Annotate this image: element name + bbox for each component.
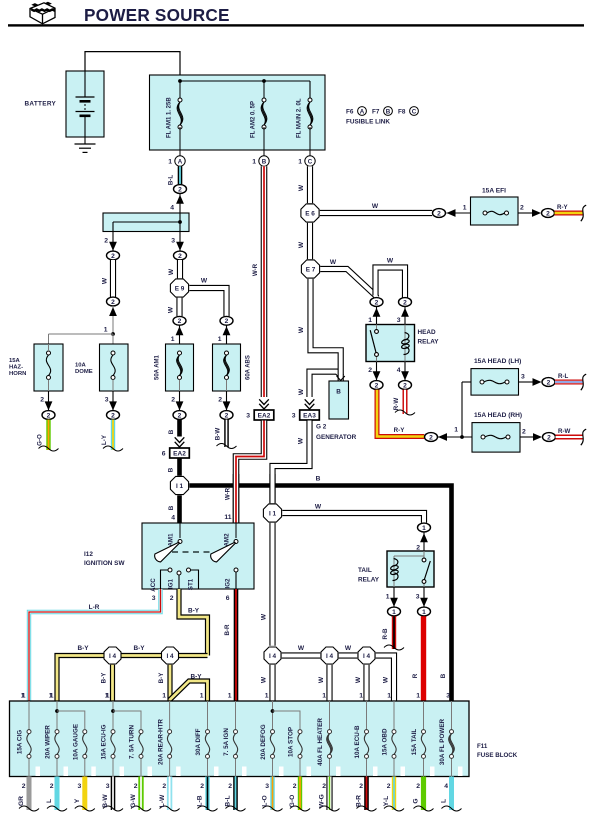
svg-text:7. 5A IGN: 7. 5A IGN <box>223 728 230 756</box>
svg-text:F11: F11 <box>477 743 488 750</box>
svg-text:B: B <box>168 429 175 434</box>
svg-text:2: 2 <box>225 412 229 419</box>
svg-text:2: 2 <box>547 379 551 386</box>
svg-text:W: W <box>298 326 305 333</box>
svg-text:2: 2 <box>522 429 526 436</box>
svg-text:W: W <box>168 268 175 275</box>
svg-text:2: 2 <box>47 412 51 419</box>
svg-text:15A HEAD (LH): 15A HEAD (LH) <box>474 358 521 365</box>
svg-text:B-R: B-R <box>356 795 363 807</box>
svg-text:B-W: B-W <box>102 794 109 808</box>
svg-text:15A HEAD (RH): 15A HEAD (RH) <box>474 412 522 419</box>
svg-text:2: 2 <box>546 210 550 217</box>
svg-text:HAZ-: HAZ- <box>9 365 23 371</box>
svg-text:W: W <box>201 278 208 285</box>
svg-text:2: 2 <box>134 783 138 790</box>
svg-text:B: B <box>386 108 391 115</box>
svg-text:1: 1 <box>454 427 458 434</box>
svg-text:2: 2 <box>368 367 372 374</box>
svg-text:B: B <box>168 467 175 472</box>
svg-text:2: 2 <box>437 210 441 217</box>
svg-text:POWER SOURCE: POWER SOURCE <box>84 5 230 25</box>
svg-text:I 4: I 4 <box>326 653 334 660</box>
svg-text:7. 5A TURN: 7. 5A TURN <box>129 725 136 760</box>
svg-text:3: 3 <box>171 238 175 245</box>
svg-text:FL AM2 0. 5P: FL AM2 0. 5P <box>251 101 257 138</box>
svg-text:L: L <box>46 799 53 803</box>
svg-text:1: 1 <box>387 693 391 700</box>
svg-text:R-Y: R-Y <box>557 204 569 211</box>
svg-text:1: 1 <box>168 159 172 166</box>
svg-text:60A ABS: 60A ABS <box>246 355 252 380</box>
svg-text:3: 3 <box>152 595 156 602</box>
svg-text:R-W: R-W <box>393 398 400 411</box>
svg-text:L: L <box>441 799 448 803</box>
svg-text:1: 1 <box>50 693 54 700</box>
svg-text:3: 3 <box>105 397 109 404</box>
svg-text:W: W <box>298 241 305 248</box>
svg-text:2: 2 <box>111 253 115 260</box>
svg-text:E 6: E 6 <box>305 210 315 217</box>
svg-text:4: 4 <box>170 205 174 212</box>
svg-text:L-O: L-O <box>262 795 269 807</box>
svg-text:L-Y: L-Y <box>101 434 108 445</box>
svg-text:EA3: EA3 <box>303 412 316 419</box>
svg-text:10A STOP: 10A STOP <box>288 727 295 757</box>
svg-text:G: G <box>413 798 420 803</box>
svg-text:B-Y: B-Y <box>188 608 200 615</box>
svg-text:TAIL: TAIL <box>358 567 372 574</box>
svg-text:10A ECU-B: 10A ECU-B <box>354 725 361 758</box>
svg-text:R-W: R-W <box>558 428 571 435</box>
svg-text:W-R: W-R <box>252 263 259 276</box>
svg-text:B: B <box>316 476 321 483</box>
svg-text:W: W <box>298 437 305 444</box>
svg-text:FL MAIN 2. 0L: FL MAIN 2. 0L <box>297 98 303 138</box>
svg-text:2: 2 <box>111 299 115 306</box>
svg-text:2: 2 <box>22 783 26 790</box>
svg-text:2: 2 <box>50 783 54 790</box>
svg-text:B-Y: B-Y <box>133 645 145 652</box>
svg-text:2: 2 <box>520 205 524 212</box>
svg-text:2: 2 <box>375 299 379 306</box>
svg-text:1: 1 <box>422 609 426 616</box>
svg-text:2: 2 <box>162 783 166 790</box>
svg-text:I 1: I 1 <box>269 510 277 517</box>
svg-text:1: 1 <box>252 159 256 166</box>
svg-text:IG2: IG2 <box>225 578 232 589</box>
svg-text:W: W <box>383 676 390 683</box>
svg-text:1: 1 <box>463 205 467 212</box>
svg-text:40A FL HEATER: 40A FL HEATER <box>317 718 324 766</box>
svg-text:1: 1 <box>322 693 326 700</box>
svg-text:2: 2 <box>359 783 363 790</box>
svg-text:W: W <box>261 676 268 683</box>
svg-text:1: 1 <box>106 693 110 700</box>
svg-text:L-B: L-B <box>197 795 204 806</box>
svg-text:FUSE BLOCK: FUSE BLOCK <box>477 752 518 759</box>
svg-text:HEAD: HEAD <box>418 329 436 336</box>
svg-text:F6: F6 <box>346 109 354 116</box>
svg-text:GENERATOR: GENERATOR <box>316 434 357 441</box>
svg-text:15A ECU-IG: 15A ECU-IG <box>101 724 108 759</box>
svg-text:15A TAIL: 15A TAIL <box>411 729 418 756</box>
svg-text:30A DIFF: 30A DIFF <box>195 728 202 755</box>
svg-text:E 7: E 7 <box>306 266 316 273</box>
svg-text:3: 3 <box>292 413 296 420</box>
svg-text:4: 4 <box>444 783 448 790</box>
svg-text:2: 2 <box>200 783 204 790</box>
svg-text:4: 4 <box>171 515 175 522</box>
svg-text:IGNITION SW: IGNITION SW <box>84 560 125 567</box>
svg-text:B: B <box>440 673 447 678</box>
svg-text:W-R: W-R <box>225 487 232 500</box>
svg-text:B-R: B-R <box>224 624 231 636</box>
svg-text:FL AM1 1. 25B: FL AM1 1. 25B <box>167 97 173 138</box>
svg-text:1: 1 <box>265 693 269 700</box>
svg-text:ACC: ACC <box>150 578 157 592</box>
svg-text:1: 1 <box>368 317 372 324</box>
svg-text:11: 11 <box>224 514 231 521</box>
svg-text:4: 4 <box>397 367 401 374</box>
svg-text:RELAY: RELAY <box>358 577 380 584</box>
svg-text:F8: F8 <box>398 109 406 116</box>
svg-text:2: 2 <box>104 238 108 245</box>
svg-text:B: B <box>168 505 175 510</box>
svg-text:Y: Y <box>74 798 81 803</box>
svg-text:1: 1 <box>22 693 26 700</box>
svg-text:W: W <box>298 388 305 395</box>
svg-text:2: 2 <box>171 397 175 404</box>
svg-text:1: 1 <box>200 693 204 700</box>
svg-text:2: 2 <box>225 318 229 325</box>
svg-text:W: W <box>345 645 352 652</box>
svg-text:B-L: B-L <box>225 795 232 806</box>
svg-text:2: 2 <box>218 397 222 404</box>
svg-text:2: 2 <box>375 382 379 389</box>
svg-text:W: W <box>298 645 305 652</box>
svg-text:I12: I12 <box>84 551 93 558</box>
svg-text:2: 2 <box>403 299 407 306</box>
svg-text:2: 2 <box>403 382 407 389</box>
svg-text:3: 3 <box>416 594 420 601</box>
svg-text:R: R <box>412 673 419 678</box>
svg-text:C: C <box>412 108 417 115</box>
svg-text:I 4: I 4 <box>363 653 371 660</box>
svg-text:EA2: EA2 <box>173 450 186 457</box>
svg-text:3: 3 <box>265 783 269 790</box>
svg-text:2: 2 <box>293 783 297 790</box>
svg-text:3: 3 <box>397 317 401 324</box>
svg-text:3: 3 <box>246 413 250 420</box>
svg-text:I 4: I 4 <box>166 653 174 660</box>
svg-text:2: 2 <box>170 595 174 602</box>
svg-text:W: W <box>315 504 322 511</box>
svg-text:B: B <box>262 158 267 165</box>
svg-text:A: A <box>178 158 183 165</box>
svg-text:F7: F7 <box>372 109 380 116</box>
svg-text:W-G: W-G <box>319 794 326 808</box>
svg-text:2: 2 <box>429 434 433 441</box>
svg-text:1: 1 <box>171 336 175 343</box>
svg-text:20A WIPER: 20A WIPER <box>45 725 52 759</box>
svg-text:1: 1 <box>392 609 396 616</box>
svg-text:10A GAUGE: 10A GAUGE <box>73 724 80 760</box>
svg-text:HORN: HORN <box>9 371 26 377</box>
svg-text:B: B <box>336 389 341 396</box>
svg-text:B-Y: B-Y <box>190 674 202 681</box>
svg-text:3: 3 <box>521 374 525 381</box>
svg-text:2: 2 <box>547 434 551 441</box>
svg-text:I 4: I 4 <box>109 653 117 660</box>
svg-text:FUSIBLE LINK: FUSIBLE LINK <box>346 119 390 126</box>
svg-text:2: 2 <box>178 412 182 419</box>
svg-text:I 1: I 1 <box>176 483 184 490</box>
svg-text:IG1: IG1 <box>168 578 175 589</box>
svg-text:W: W <box>355 676 362 683</box>
svg-text:R-L: R-L <box>558 373 569 380</box>
svg-text:A: A <box>360 108 365 115</box>
svg-text:50A AM1: 50A AM1 <box>155 354 161 380</box>
svg-text:2: 2 <box>178 186 182 193</box>
svg-text:W: W <box>372 203 379 210</box>
svg-text:15A: 15A <box>9 358 21 364</box>
svg-text:10A: 10A <box>75 363 87 369</box>
svg-text:W: W <box>387 258 394 265</box>
svg-text:2: 2 <box>111 412 115 419</box>
svg-text:L-W: L-W <box>159 794 166 807</box>
svg-text:W: W <box>330 259 337 266</box>
svg-text:W: W <box>318 676 325 683</box>
svg-text:2: 2 <box>322 783 326 790</box>
svg-text:2: 2 <box>387 783 391 790</box>
svg-text:B-W: B-W <box>215 428 222 441</box>
svg-text:RELAY: RELAY <box>418 339 440 346</box>
svg-text:15A EFI: 15A EFI <box>482 188 506 195</box>
svg-text:3: 3 <box>106 783 110 790</box>
svg-text:1: 1 <box>416 693 420 700</box>
svg-text:B-Y: B-Y <box>101 672 108 684</box>
svg-text:1: 1 <box>298 159 302 166</box>
svg-text:R-B: R-B <box>382 628 389 640</box>
svg-text:6: 6 <box>162 451 166 458</box>
svg-text:I 4: I 4 <box>269 653 277 660</box>
svg-text:1: 1 <box>386 594 390 601</box>
svg-text:1: 1 <box>218 336 222 343</box>
svg-text:2: 2 <box>178 318 182 325</box>
svg-text:1: 1 <box>228 693 232 700</box>
svg-text:1: 1 <box>359 693 363 700</box>
svg-text:B-Y: B-Y <box>158 672 165 684</box>
svg-text:L-R: L-R <box>89 604 100 611</box>
svg-text:G-O: G-O <box>289 795 296 808</box>
svg-text:3: 3 <box>78 783 82 790</box>
svg-text:EA2: EA2 <box>258 412 271 419</box>
svg-text:G 2: G 2 <box>316 424 327 431</box>
svg-text:G-W: G-W <box>130 793 137 807</box>
svg-text:1: 1 <box>422 525 426 532</box>
svg-text:3: 3 <box>446 693 450 700</box>
svg-text:R-Y: R-Y <box>394 427 406 434</box>
svg-text:6: 6 <box>226 595 230 602</box>
svg-text:E 9: E 9 <box>175 285 185 292</box>
svg-text:15A CIG: 15A CIG <box>17 730 24 754</box>
svg-text:B-L: B-L <box>168 175 175 186</box>
svg-text:W: W <box>102 277 109 284</box>
svg-text:ST1: ST1 <box>188 578 195 590</box>
svg-text:W: W <box>298 184 305 191</box>
svg-text:BATTERY: BATTERY <box>25 101 57 108</box>
svg-text:1: 1 <box>104 327 108 334</box>
svg-text:1: 1 <box>162 693 166 700</box>
svg-text:G-O: G-O <box>37 434 44 446</box>
svg-text:GR: GR <box>18 796 25 806</box>
svg-text:20A DEFOG: 20A DEFOG <box>260 724 267 760</box>
svg-text:30A FL POWER: 30A FL POWER <box>439 718 446 765</box>
svg-text:Y-L: Y-L <box>383 796 390 806</box>
svg-text:2: 2 <box>416 783 420 790</box>
svg-text:15A OBD: 15A OBD <box>382 728 389 756</box>
svg-text:2: 2 <box>40 397 44 404</box>
svg-text:20A REAR-HTR: 20A REAR-HTR <box>157 719 164 765</box>
svg-text:C: C <box>308 158 313 165</box>
svg-text:DOME: DOME <box>75 369 93 375</box>
svg-text:W: W <box>261 613 268 620</box>
svg-text:W: W <box>168 306 175 313</box>
svg-text:B-Y: B-Y <box>77 645 89 652</box>
svg-text:2: 2 <box>178 253 182 260</box>
svg-text:2: 2 <box>228 783 232 790</box>
